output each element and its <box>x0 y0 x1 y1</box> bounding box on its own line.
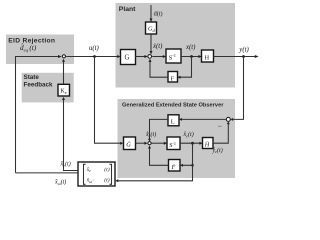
svg-text:x̂ω̂(t): x̂ω̂(t) <box>54 179 66 186</box>
svg-text:x(t): x(t) <box>185 44 196 51</box>
wire S3 to S-1 obs <box>152 142 165 144</box>
svg-text:x̂e: x̂e <box>86 167 91 173</box>
wire G obs to S3 <box>136 142 145 144</box>
wire G to S2 <box>136 56 145 58</box>
sum S1 <box>62 55 65 58</box>
wire H to y(t) output <box>214 56 256 58</box>
block Ke <box>58 84 70 96</box>
svg-text:H̄: H̄ <box>204 141 210 148</box>
svg-text:(t): (t) <box>104 177 109 184</box>
svg-text:d(t): d(t) <box>154 10 163 17</box>
svg-text:d̂eq(t): d̂eq(t) <box>20 42 37 53</box>
wire y branch down to S4 <box>233 57 244 120</box>
wire S4 to L <box>181 118 226 120</box>
svg-text:x̂̇e(t): x̂̇e(t) <box>145 131 156 138</box>
wire H obs up to S4 <box>213 124 228 144</box>
wire EID output to sum S1 <box>16 57 59 173</box>
svg-text:G: G <box>125 55 130 62</box>
svg-text:ẋ(t): ẋ(t) <box>152 43 163 50</box>
block G obs <box>124 137 136 150</box>
bracket right <box>110 164 112 184</box>
svg-text:State: State <box>24 74 40 81</box>
junction u branch <box>93 55 96 58</box>
wire S-1 to H <box>181 56 199 58</box>
junction y branch <box>242 55 245 58</box>
svg-text:Plant: Plant <box>119 6 136 13</box>
block S-1 obs <box>167 137 180 150</box>
block F plant <box>168 72 178 83</box>
block G plant <box>121 50 136 65</box>
svg-text:Feedback: Feedback <box>24 81 54 88</box>
svg-text:x̂e(t): x̂e(t) <box>60 161 71 168</box>
sum S2 <box>148 55 152 59</box>
svg-text:L: L <box>171 119 175 126</box>
wire vector box to Ke <box>64 100 79 171</box>
svg-text:Generalized Extended State Obs: Generalized Extended State Observer <box>122 103 224 109</box>
junction F obs branch <box>191 164 194 167</box>
Observer grey box <box>118 99 236 178</box>
junction xhat branch <box>191 142 194 145</box>
block F obs <box>169 160 181 172</box>
bracket left <box>84 164 86 184</box>
svg-text:ŷe(t): ŷe(t) <box>212 147 223 154</box>
sum S3 <box>148 142 151 145</box>
junction x branch <box>190 55 193 58</box>
wire S2 to S-1 <box>152 56 163 58</box>
block S-1 plant <box>166 49 181 63</box>
EID Rejection grey box <box>6 35 74 65</box>
svg-text:Ḡ: Ḡ <box>126 142 131 149</box>
svg-text:x̂e(t): x̂e(t) <box>183 131 194 138</box>
svg-text:−: − <box>218 122 222 131</box>
State Feedback grey box <box>22 73 74 103</box>
block L <box>168 115 179 126</box>
wire Gd to sum S2 <box>150 34 152 52</box>
wire F back to S2 <box>150 62 168 78</box>
wire u(t) S1 to plant G <box>66 56 118 58</box>
state vector box <box>78 162 115 186</box>
svg-text:F̄: F̄ <box>171 164 176 171</box>
wire xhat to state vector box <box>118 165 193 181</box>
wire Ke up to S1 <box>63 61 65 84</box>
svg-text:Ke: Ke <box>61 89 67 95</box>
svg-text:u(t): u(t) <box>89 45 100 52</box>
block H obs <box>203 138 214 149</box>
wire u branch down to G obs <box>95 57 121 144</box>
block H plant <box>202 50 214 62</box>
wire F obs back to S3 <box>150 148 169 165</box>
wire x(t) down to F plant <box>180 57 192 78</box>
wire L to S3 <box>150 119 169 139</box>
Plant grey box <box>116 3 236 88</box>
sum S4 <box>226 117 230 121</box>
svg-text:y(t): y(t) <box>238 47 249 54</box>
svg-text:H: H <box>205 54 210 61</box>
svg-text:F: F <box>171 75 175 82</box>
wire xhat branch down to F obs <box>182 143 192 165</box>
block Gd <box>146 22 157 34</box>
svg-text:(t): (t) <box>104 166 109 173</box>
wire S-1 obs to H obs <box>180 142 200 144</box>
wire vector box to EID line <box>16 172 79 174</box>
wire d(t) into Gd <box>150 5 152 19</box>
